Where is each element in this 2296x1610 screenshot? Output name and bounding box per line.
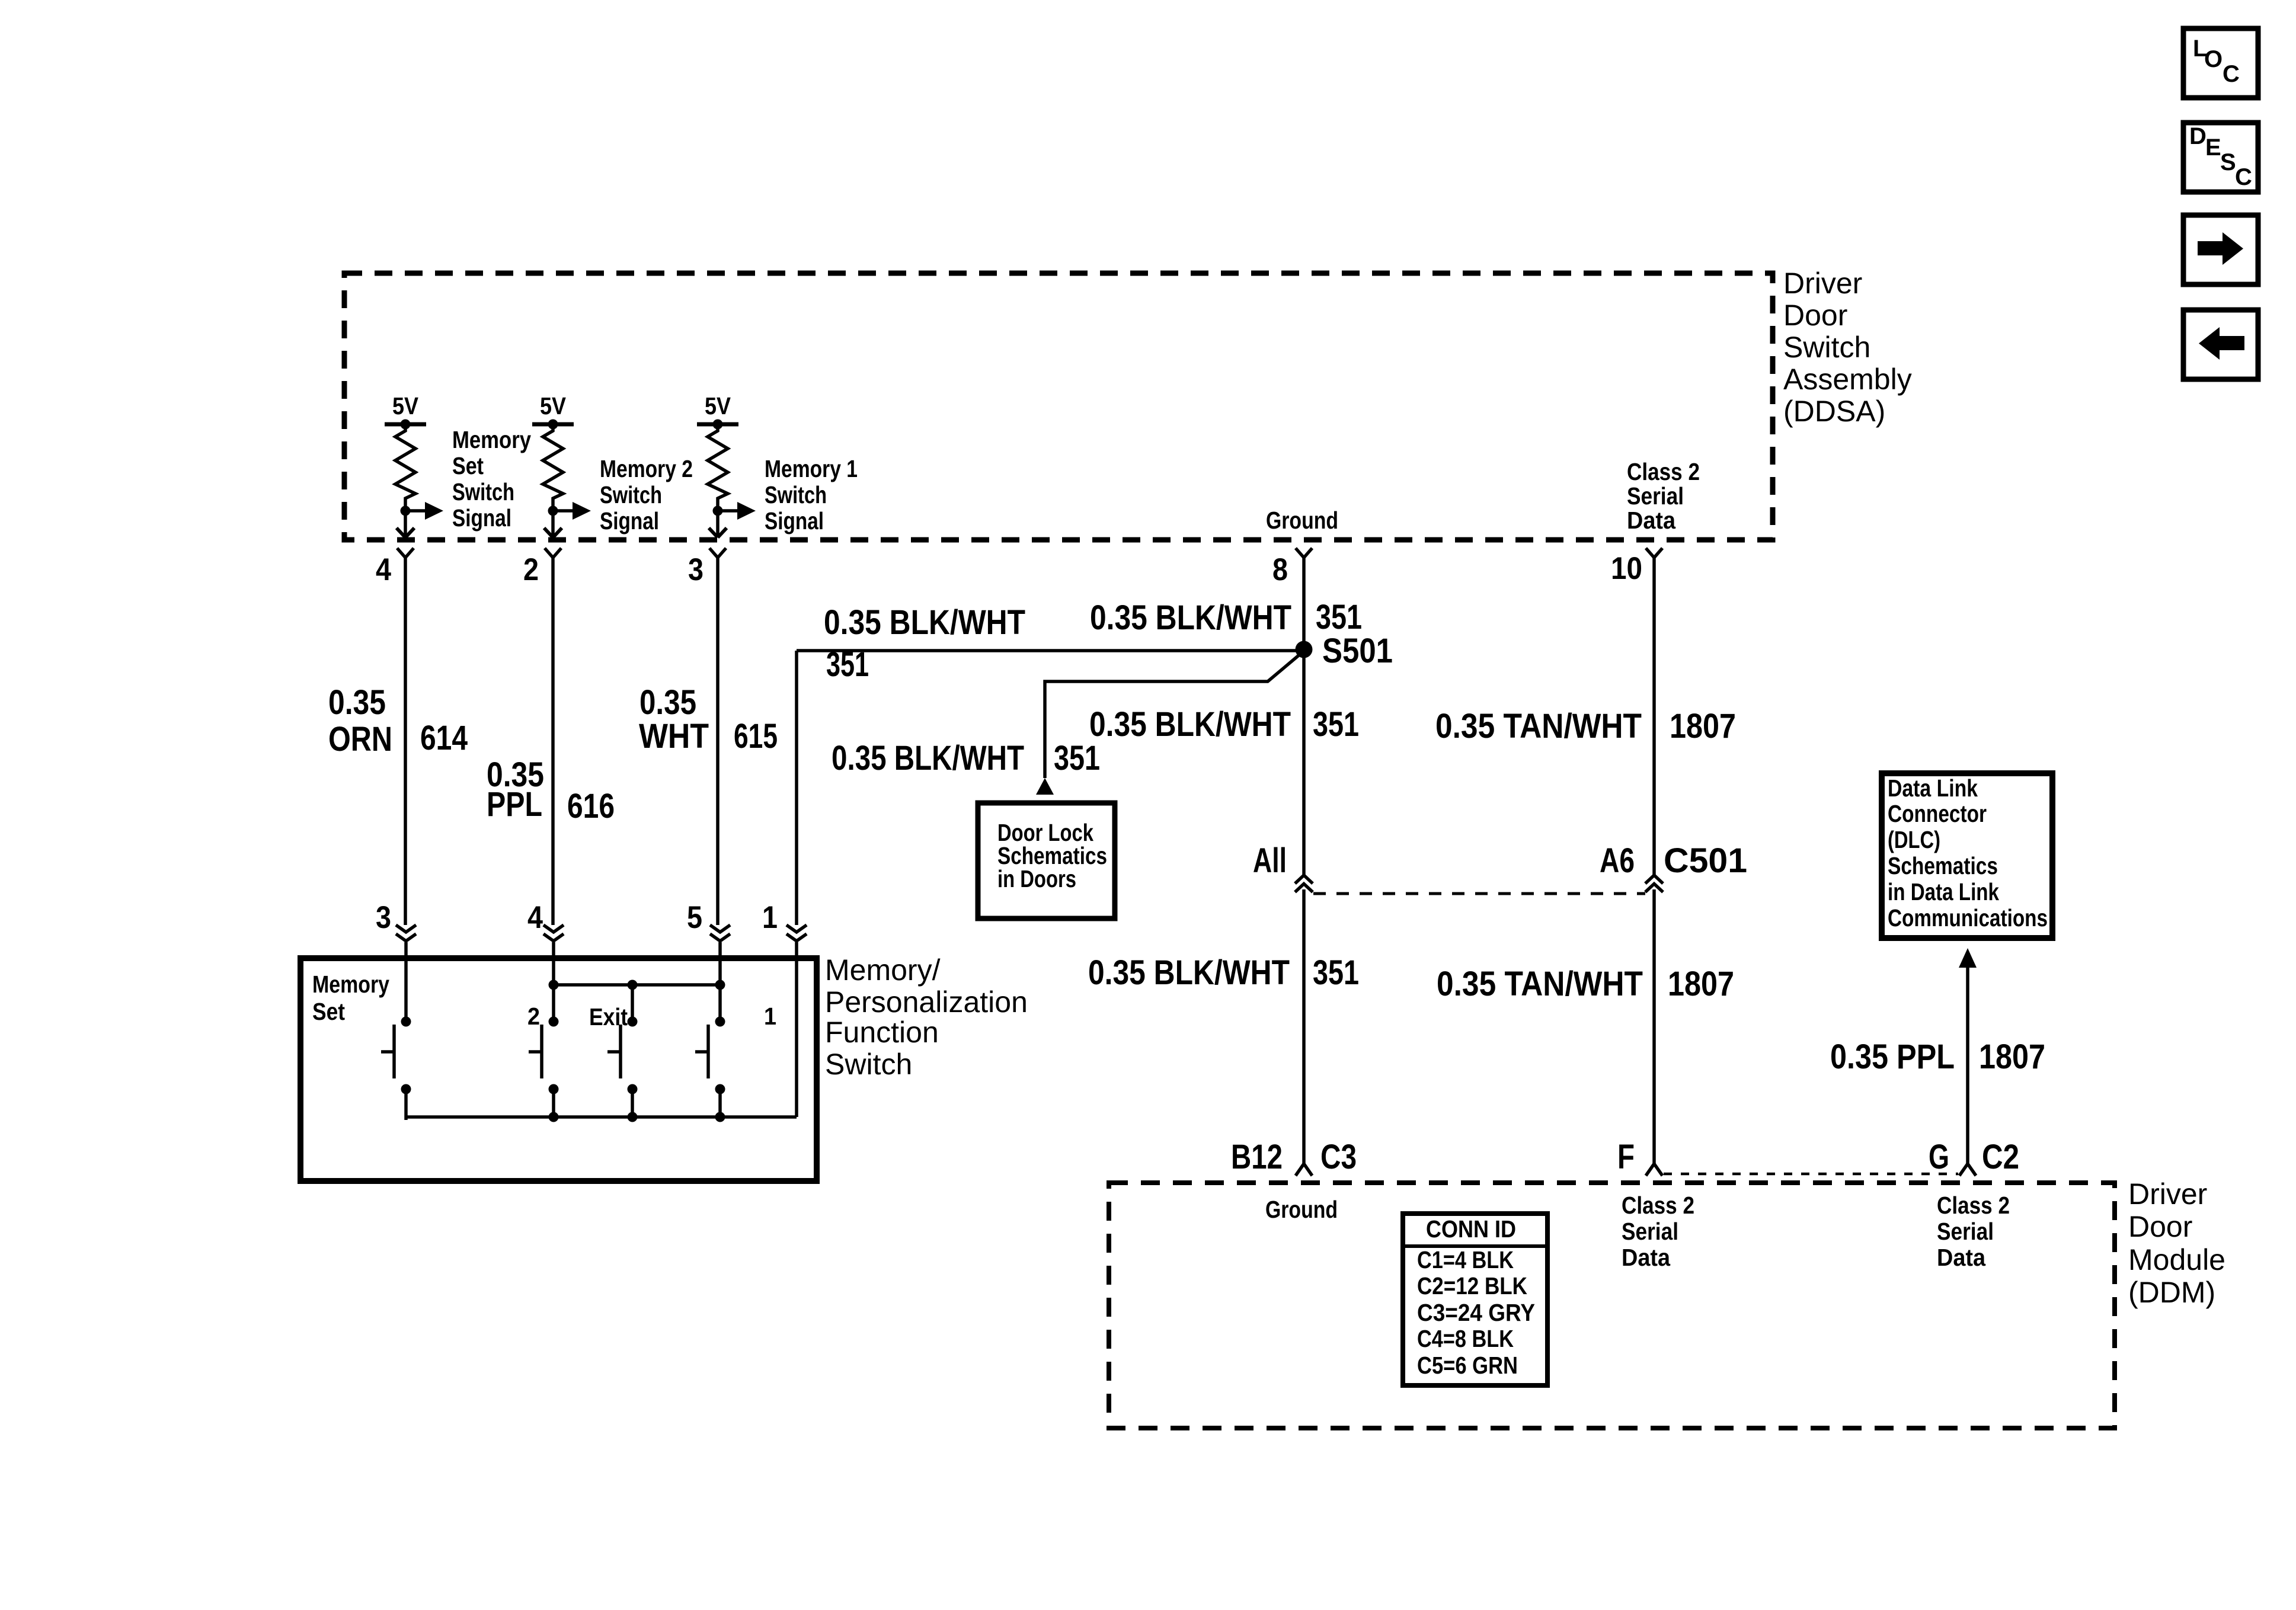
label: Memory Set (switch name) — [312, 971, 389, 1025]
node: bottom rail at exit — [628, 1112, 638, 1122]
svg-text:C4=8 BLK: C4=8 BLK — [1417, 1325, 1514, 1352]
svg-text:614: 614 — [420, 719, 468, 757]
svg-text:0.35 BLK/WHT: 0.35 BLK/WHT — [1088, 953, 1290, 992]
svg-text:Set: Set — [312, 998, 345, 1025]
label: 0.35 ORN 614 — [328, 683, 468, 758]
pin 4 of memory switch connector — [527, 900, 564, 941]
wire: pin 3 into switch — [404, 942, 408, 1025]
svg-text:1: 1 — [764, 1003, 776, 1030]
label: 0.35 BLK/WHT 351 (lower ground wire) — [1088, 953, 1359, 992]
svg-text:Signal: Signal — [600, 507, 659, 534]
svg-text:C: C — [2223, 61, 2240, 87]
wire: ground pin 8 down to C501 (BLK/WHT 351) — [1302, 558, 1306, 875]
icon: LOC button — [2183, 28, 2258, 98]
svg-text:Schematics: Schematics — [1888, 852, 1998, 879]
svg-text:Signal: Signal — [765, 507, 824, 534]
svg-text:Serial: Serial — [1622, 1218, 1678, 1245]
svg-text:0.35 PPL: 0.35 PPL — [1830, 1038, 1955, 1076]
svg-text:351: 351 — [1054, 739, 1100, 777]
pin G/C2 of DDM (Class 2 Serial Data) — [1929, 1138, 2019, 1176]
pin 2 of DDSA connector — [523, 548, 561, 587]
switch: 1 pushbutton — [695, 1017, 725, 1121]
switch: Exit pushbutton — [607, 1017, 638, 1121]
switch: Memory Set pushbutton — [381, 1017, 411, 1121]
svg-text:C: C — [2235, 164, 2252, 190]
label: 0.35 PPL 1807 — [1830, 1038, 2045, 1076]
wire: pin 2 to memory switch pin 4 (PPL 616) — [551, 558, 555, 925]
svg-text:Door: Door — [2128, 1210, 2192, 1243]
pin 8 of DDSA connector (Ground) — [1272, 548, 1312, 587]
label: 0.35 TAN/WHT 1807 (lower) — [1437, 965, 1734, 1003]
svg-text:8: 8 — [1272, 552, 1288, 587]
node: rail junction at exit — [628, 980, 638, 990]
svg-text:Class 2: Class 2 — [1937, 1192, 2010, 1219]
svg-text:D: D — [2189, 123, 2207, 149]
label: 0.35 BLK/WHT 351 (pin 1 branch) — [824, 603, 1025, 684]
svg-text:C501: C501 — [1664, 841, 1747, 880]
svg-text:C1=4 BLK: C1=4 BLK — [1417, 1246, 1514, 1273]
svg-text:Communications: Communications — [1888, 904, 2048, 932]
svg-text:351: 351 — [1313, 705, 1359, 744]
pin 1 of memory switch connector — [762, 900, 807, 941]
dashed connector line C2 between F and G — [1664, 1173, 1958, 1176]
wire: bottom rail inside switch — [406, 1115, 797, 1119]
svg-text:Class 2: Class 2 — [1627, 458, 1700, 485]
svg-text:Signal: Signal — [452, 504, 511, 532]
svg-text:B12: B12 — [1231, 1138, 1283, 1176]
svg-text:0.35 BLK/WHT: 0.35 BLK/WHT — [824, 603, 1025, 642]
wire: ground C501 to DDM pin B12 — [1302, 889, 1306, 1164]
svg-text:O: O — [2204, 46, 2223, 72]
svg-text:5V: 5V — [392, 392, 419, 420]
svg-text:C2: C2 — [1982, 1138, 2019, 1176]
label: DDSA title — [1783, 267, 1912, 428]
svg-text:Module: Module — [2128, 1243, 2225, 1276]
svg-text:Ground: Ground — [1265, 1196, 1338, 1223]
svg-text:in Doors: in Doors — [997, 865, 1076, 892]
wire: top rail inside switch — [554, 983, 720, 987]
svg-text:Data: Data — [1622, 1244, 1671, 1271]
wire: pin 4 into switch — [552, 942, 555, 1025]
svg-text:Class 2: Class 2 — [1622, 1192, 1694, 1219]
svg-text:2: 2 — [523, 552, 539, 587]
svg-text:1: 1 — [762, 900, 778, 935]
node: rail junction at wire 5 — [715, 980, 725, 990]
svg-text:3: 3 — [688, 552, 703, 587]
svg-text:Ground: Ground — [1266, 507, 1338, 534]
label: Class 2 Serial Data (DDM pin F) — [1622, 1192, 1694, 1271]
label: DDM title — [2128, 1177, 2225, 1309]
resistor R2 with 5V supply (Memory 2 Switch Signal) — [532, 392, 693, 537]
label: Class 2 Serial Data (DDSA pin 10) — [1627, 458, 1700, 534]
arrow into door lock schematics box — [1036, 778, 1054, 795]
pin F of DDM (Class 2 Serial Data) — [1617, 1138, 1662, 1176]
svg-text:Set: Set — [452, 452, 484, 479]
svg-text:Memory/: Memory/ — [825, 953, 941, 987]
label: 0.35 TAN/WHT 1807 (upper) — [1435, 707, 1736, 745]
svg-text:0.35 BLK/WHT: 0.35 BLK/WHT — [1089, 705, 1291, 744]
wire: pin 5 into switch — [718, 942, 722, 1025]
svg-text:C3=24 GRY: C3=24 GRY — [1417, 1299, 1535, 1326]
pin 4 of DDSA connector — [376, 548, 414, 587]
svg-text:WHT: WHT — [639, 717, 709, 756]
svg-text:1807: 1807 — [1979, 1038, 2045, 1076]
icon: forward arrow button — [2183, 215, 2258, 284]
svg-text:0.35 TAN/WHT: 0.35 TAN/WHT — [1437, 965, 1643, 1003]
box: Door Lock Schematics in Doors — [978, 803, 1115, 918]
svg-text:PPL: PPL — [487, 785, 542, 824]
svg-text:Assembly: Assembly — [1783, 363, 1912, 396]
svg-text:(DDM): (DDM) — [2128, 1276, 2215, 1309]
svg-text:4: 4 — [376, 552, 391, 587]
svg-text:Driver: Driver — [1783, 267, 1862, 300]
box: Memory/Personalization Function Switch — [300, 958, 817, 1181]
switch: 2 pushbutton — [529, 1017, 559, 1121]
connector C501 on ground wire (All) — [1253, 841, 1313, 892]
svg-text:Door: Door — [1783, 299, 1847, 332]
icon: DESC button — [2183, 123, 2258, 192]
svg-text:C2=12 BLK: C2=12 BLK — [1417, 1272, 1527, 1299]
resistor R1 with 5V supply (Memory Set Switch Signal) — [385, 392, 531, 537]
pin 3 of memory switch connector — [376, 900, 416, 941]
wire: S501 branch to door lock schematics — [1045, 653, 1302, 778]
wire: pin 1 into switch down to bottom rail — [795, 942, 798, 1117]
svg-text:Switch: Switch — [600, 481, 662, 508]
svg-text:S: S — [2220, 149, 2236, 175]
svg-text:Switch: Switch — [1783, 331, 1870, 364]
svg-text:351: 351 — [1313, 953, 1359, 992]
label: 0.35 BLK/WHT 351 (door lock branch) — [832, 739, 1100, 777]
svg-text:2: 2 — [527, 1003, 540, 1030]
wire: class 2 pin 10 down to C501 (TAN/WHT 1807) — [1652, 558, 1656, 875]
svg-text:Data: Data — [1627, 507, 1676, 534]
splice S501 — [1296, 632, 1393, 670]
svg-text:Connector: Connector — [1888, 800, 1987, 827]
svg-text:0.35 BLK/WHT: 0.35 BLK/WHT — [1090, 598, 1291, 637]
svg-text:A6: A6 — [1600, 841, 1635, 880]
svg-text:in Data Link: in Data Link — [1888, 878, 1999, 905]
svg-text:Switch: Switch — [452, 478, 514, 505]
svg-text:0.35: 0.35 — [639, 683, 696, 722]
wire: pin 3 to memory switch pin 5 (WHT 615) — [716, 558, 720, 925]
svg-text:Memory: Memory — [312, 971, 389, 998]
svg-text:F: F — [1617, 1138, 1635, 1176]
wire: pin 4 to memory switch pin 3 (ORN 614) — [404, 558, 407, 925]
box: Data Link Connector (DLC) Schematics — [1882, 773, 2052, 938]
icon: back arrow button — [2183, 310, 2258, 379]
svg-text:Serial: Serial — [1627, 482, 1684, 510]
svg-text:1807: 1807 — [1670, 707, 1736, 745]
svg-text:S501: S501 — [1322, 632, 1393, 670]
pin 10 of DDSA connector (Class 2 Serial Data) — [1611, 548, 1662, 586]
svg-text:0.35: 0.35 — [328, 683, 386, 722]
label: Class 2 Serial Data (DDM pin G) — [1937, 1192, 2010, 1271]
box: Driver Door Switch Assembly (DDSA) dashed outline — [344, 273, 1773, 540]
box: Driver Door Module (DDM) dashed outline — [1109, 1183, 2115, 1428]
label: Door Lock Schematics in Doors — [997, 819, 1107, 892]
svg-text:Data Link: Data Link — [1888, 774, 1978, 802]
svg-text:Serial: Serial — [1937, 1218, 1994, 1245]
table: CONN ID — [1403, 1214, 1547, 1385]
label: 0.35 BLK/WHT 351 (ground wire below S501) — [1089, 705, 1359, 744]
pin 5 of memory switch connector — [687, 900, 730, 941]
label: Memory/Personalization Function Switch title — [825, 953, 1028, 1081]
svg-text:G: G — [1929, 1138, 1949, 1176]
svg-text:Personalization: Personalization — [825, 985, 1028, 1019]
svg-text:Switch: Switch — [765, 481, 827, 508]
svg-text:1807: 1807 — [1668, 965, 1734, 1003]
wire: class 2 C501 to DDM pin F — [1652, 889, 1656, 1164]
svg-text:E: E — [2205, 135, 2221, 161]
svg-text:4: 4 — [527, 900, 543, 935]
svg-text:Function: Function — [825, 1016, 939, 1049]
node: bottom rail at wire 5 — [715, 1112, 725, 1122]
svg-text:C5=6 GRN: C5=6 GRN — [1417, 1352, 1518, 1379]
svg-text:Memory 1: Memory 1 — [765, 455, 858, 482]
svg-text:351: 351 — [1316, 598, 1362, 636]
node: bottom rail at wire 4 — [549, 1112, 559, 1122]
label: 0.35 PPL 616 — [487, 756, 615, 825]
svg-text:5V: 5V — [705, 392, 731, 420]
wire: exit switch stub — [631, 985, 634, 1025]
svg-text:ORN: ORN — [328, 720, 392, 758]
svg-text:615: 615 — [734, 717, 778, 756]
connector C501 on class 2 wire (A6) — [1600, 841, 1747, 892]
pin 3 of DDSA connector — [688, 548, 726, 587]
svg-text:CONN ID: CONN ID — [1426, 1215, 1516, 1243]
svg-text:(DDSA): (DDSA) — [1783, 395, 1885, 428]
svg-text:0.35 TAN/WHT: 0.35 TAN/WHT — [1435, 707, 1642, 745]
label: DLC box text — [1888, 774, 2048, 932]
svg-text:All: All — [1253, 841, 1287, 880]
svg-text:0.35 BLK/WHT: 0.35 BLK/WHT — [832, 739, 1024, 777]
label: 0.35 BLK/WHT 351 (ground wire above S501) — [1090, 598, 1362, 637]
svg-text:Driver: Driver — [2128, 1177, 2207, 1211]
svg-text:(DLC): (DLC) — [1888, 826, 1940, 853]
svg-text:351: 351 — [826, 645, 869, 684]
wire: horizontal from pin 1 wire to S501 — [797, 649, 1304, 652]
wire: DDM pin G up to DLC (PPL 1807) — [1966, 968, 1969, 1164]
svg-text:5: 5 — [687, 900, 702, 935]
svg-text:Memory: Memory — [452, 426, 531, 453]
svg-text:5V: 5V — [540, 392, 567, 420]
svg-text:Memory 2: Memory 2 — [600, 455, 693, 482]
svg-text:10: 10 — [1611, 551, 1642, 586]
node: rail junction at wire 4 — [549, 980, 559, 990]
svg-text:616: 616 — [567, 787, 615, 825]
label: 0.35 WHT 615 — [639, 683, 778, 756]
svg-text:3: 3 — [376, 900, 391, 935]
svg-text:Switch: Switch — [825, 1048, 912, 1081]
wire: memory switch pin 1 up to S501 splice — [795, 651, 798, 925]
arrow into DLC box — [1959, 948, 1977, 968]
pin B12/C3 of DDM (Ground) — [1231, 1138, 1357, 1176]
resistor R3 with 5V supply (Memory 1 Switch Signal) — [697, 392, 858, 537]
svg-text:Data: Data — [1937, 1244, 1986, 1271]
dashed connector line C501 — [1313, 892, 1645, 895]
svg-text:C3: C3 — [1320, 1138, 1357, 1176]
